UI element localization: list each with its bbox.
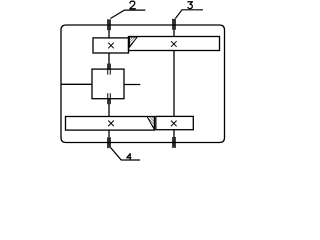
bearing (middle block top) xyxy=(108,64,111,75)
friction wedge lower xyxy=(147,117,154,130)
digit 3 xyxy=(188,2,193,9)
middle block xyxy=(92,69,124,99)
stub line right xyxy=(124,84,140,86)
bearing (middle block bottom) xyxy=(108,93,111,104)
mount line left xyxy=(61,83,92,85)
shaft I segment bottom xyxy=(108,130,110,148)
shaft I segment top xyxy=(108,20,110,38)
shaft II segment middle xyxy=(173,51,175,117)
shaft II segment top xyxy=(173,19,175,37)
friction wedge upper xyxy=(129,37,137,47)
bearing (bottom of shaft II) xyxy=(173,137,176,148)
shaft I segment 2 xyxy=(108,53,110,69)
leader label 3 xyxy=(175,10,203,19)
x mark G4 xyxy=(171,121,177,127)
x mark G3 xyxy=(108,121,114,127)
x mark G2 xyxy=(171,41,177,47)
digit 4 xyxy=(127,154,131,160)
digit 2 xyxy=(130,1,136,9)
bearing 4 (bottom of shaft I) xyxy=(108,137,111,148)
gear G1 (small upper, on shaft I) xyxy=(93,38,129,53)
x mark G1 xyxy=(108,43,114,49)
bearing 2 (top of shaft I) xyxy=(108,19,111,30)
shaft I segment 3 xyxy=(108,99,110,117)
leader label 4 xyxy=(111,148,140,160)
gear G3 (long lower, on shaft I) xyxy=(66,117,155,131)
leader label 2 xyxy=(111,10,146,18)
shaft II segment bottom xyxy=(173,130,175,148)
gear G2 (long upper, on shaft II) xyxy=(129,37,220,51)
housing frame xyxy=(61,25,225,143)
bearing 3 (top of shaft II) xyxy=(173,19,176,30)
gear G4 (small lower, on shaft II) xyxy=(156,116,194,129)
